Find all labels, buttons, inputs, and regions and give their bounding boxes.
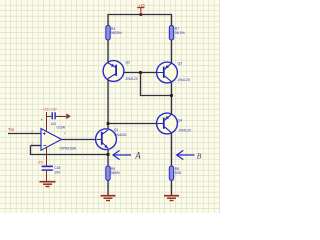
svg-text:U16A: U16A [57,125,66,129]
wire inverting input [31,145,42,147]
op-amp V- power pin [46,147,48,166]
wire R7 top drop [171,15,173,26]
svg-text:Q2: Q2 [126,61,131,65]
svg-text:Q3: Q3 [178,62,183,66]
svg-text:-15: -15 [37,160,42,164]
svg-text:+15: +15 [138,2,146,7]
svg-text:Tin: Tin [8,127,15,132]
wire Tin input [8,133,41,135]
svg-text:2N4120: 2N4120 [179,128,191,132]
wire R4 top drop [107,15,109,26]
junction Q4 base node [106,122,109,125]
resistor R8 [169,166,173,180]
wire R9 to ground [107,180,109,195]
wire R7 to Q3 emitter [171,40,173,63]
capacitor C17 [47,108,67,127]
svg-text:50B: 50B [175,171,182,175]
resistor R4 [106,26,110,41]
wire op-amp output to Q1 base [62,139,97,141]
svg-text:2N4120: 2N4120 [178,78,190,82]
svg-text:104: 104 [50,122,56,126]
svg-text:104: 104 [54,171,60,175]
ground under R9 [101,196,116,201]
transistor Q2 [103,61,138,82]
svg-text:A: A [134,151,141,161]
resistor R7 [169,26,173,41]
sheet background [0,0,220,213]
wire Q3 collector down to Q4 emitter [171,82,173,115]
transistor Q3 [157,62,190,83]
svg-text:Q4: Q4 [178,119,183,123]
probe arrow A [113,150,131,159]
resistor R9 [106,166,110,180]
power port +15 top [137,8,144,15]
wire R4 to Q2 emitter [107,40,109,63]
capacitor C18 [42,166,61,181]
ground under C18 [40,182,56,187]
svg-text:0B5%: 0B5% [111,171,120,175]
svg-text:Q1: Q1 [114,128,119,132]
svg-text:OPA2330: OPA2330 [60,145,77,150]
svg-text:B: B [197,151,202,160]
wire Q2 collector down to Q1 collector [107,79,109,131]
svg-text:C17: C17 [51,108,57,112]
svg-text:0B.5%: 0B.5% [175,31,185,35]
op-amp U16A [41,125,77,150]
svg-text:0B25%: 0B25% [111,31,122,35]
power arrow +15 right of C17 [66,113,70,119]
wire Q4 collector to R8 [171,133,173,166]
junction Q3 collector tap [170,94,173,97]
svg-text:2N4120: 2N4120 [126,77,138,81]
transistor Q1 [96,128,127,150]
wire feedback loop [31,146,109,155]
transistor Q4 [157,113,191,134]
junction Q1 emitter feedback [106,153,109,156]
svg-text:2N4401: 2N4401 [115,133,127,137]
wire Q1 emitter to R9 [107,148,109,166]
svg-text:+15: +15 [43,108,49,112]
probe arrow B [177,150,195,159]
junction top power [139,13,142,16]
wire top rail [107,14,172,16]
wire collector node to Q4 base [108,123,163,125]
op-amp V+ power pin [46,112,48,132]
wire R8 to ground [171,180,173,195]
wire mirror tap [141,73,172,96]
junction base tap [139,71,142,74]
wire Q2 base to Q3 base [117,72,164,74]
svg-text:C18: C18 [54,166,60,170]
ground under R8 [164,196,179,201]
